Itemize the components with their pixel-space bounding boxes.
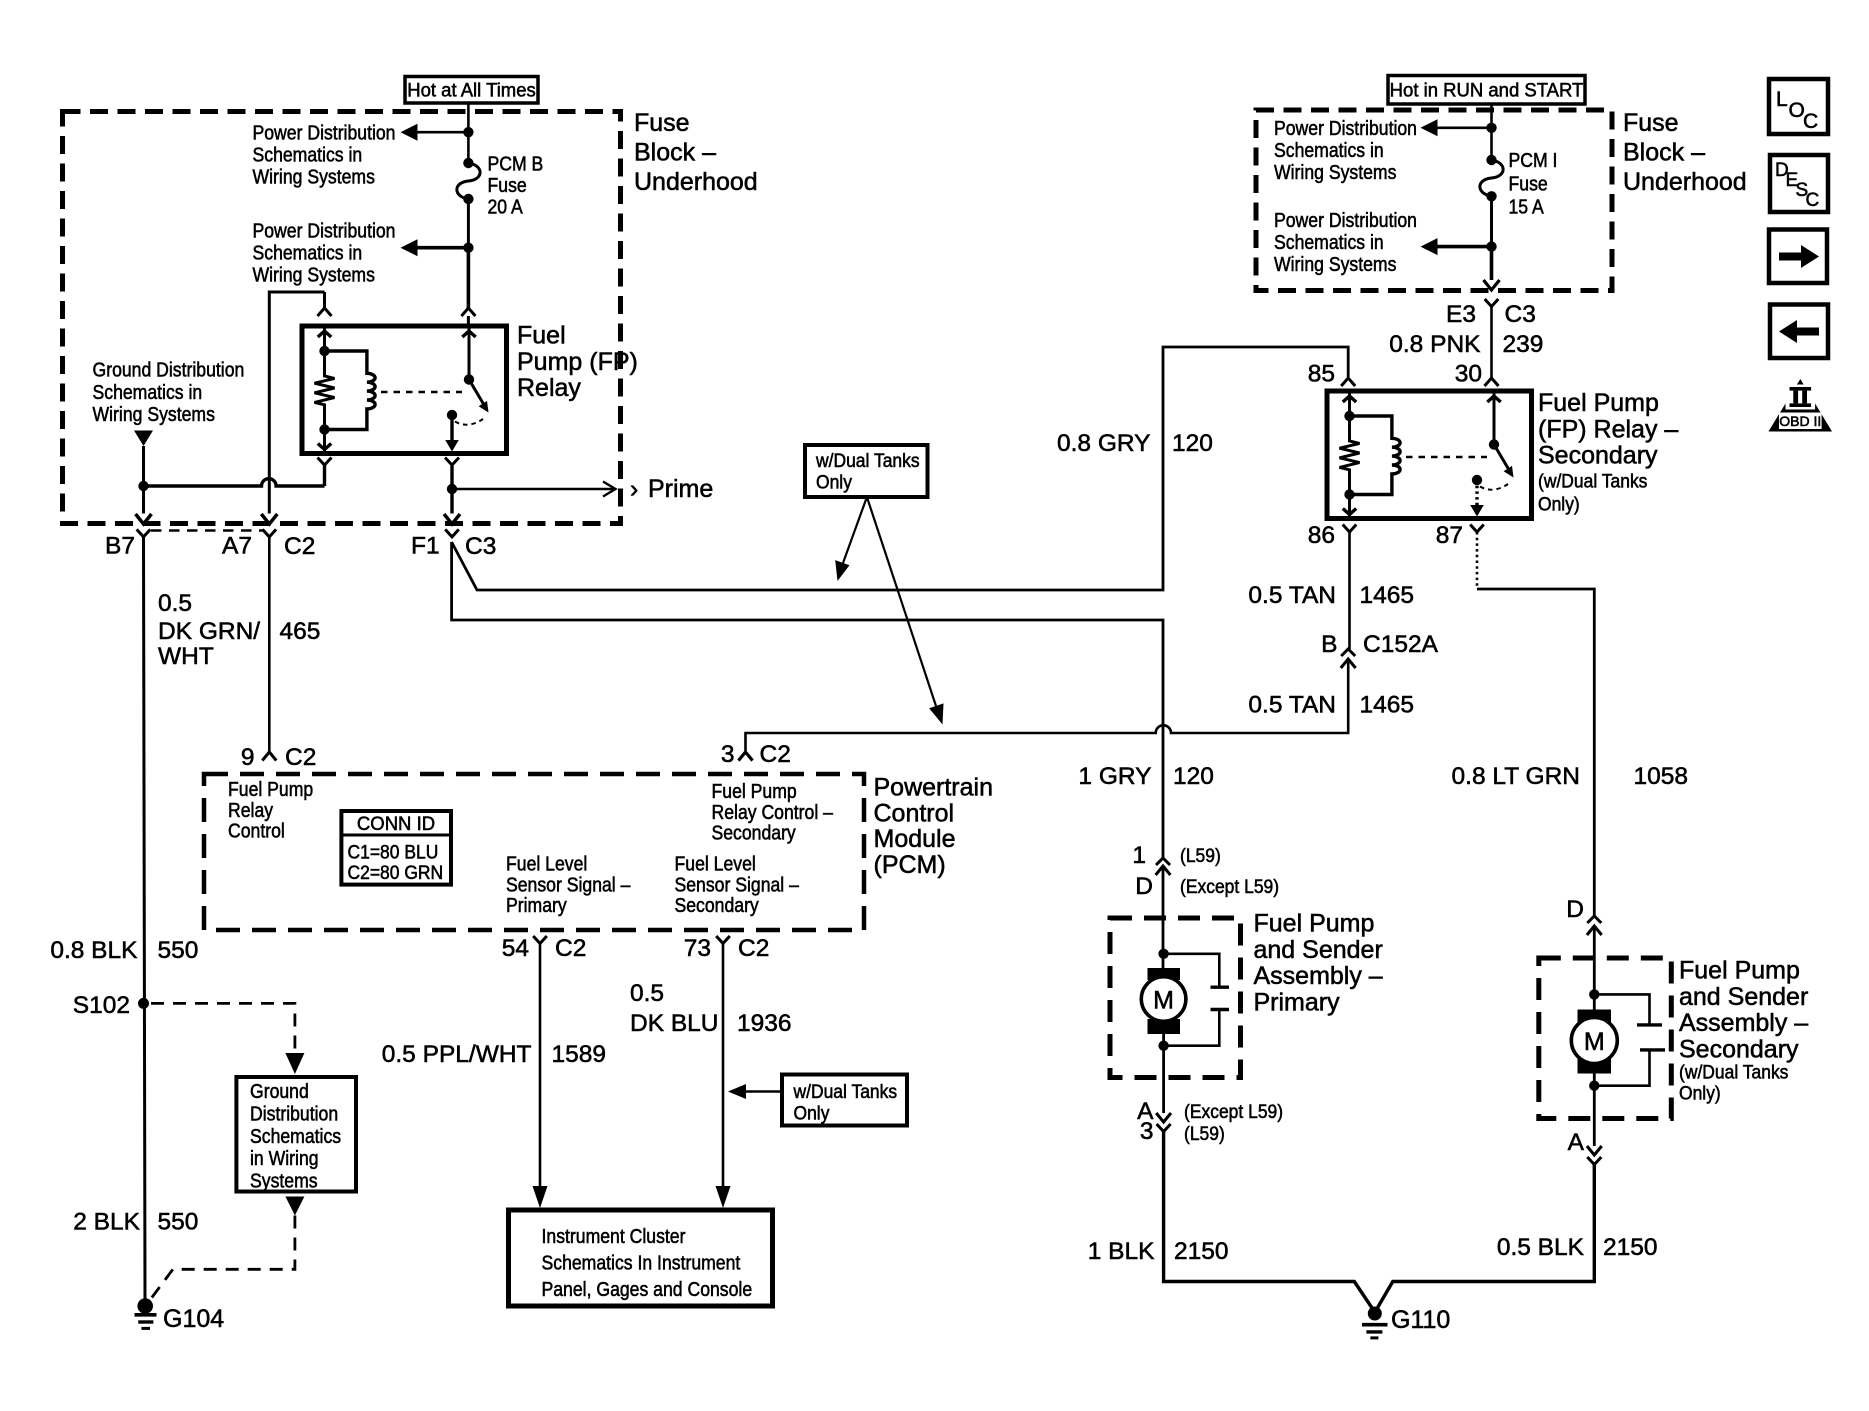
wire: relay pin 85-side down to ground-distribution rail xyxy=(318,458,332,487)
label: PCM I Fuse 15 A xyxy=(1509,150,1558,219)
svg-text:Secondary: Secondary xyxy=(675,895,760,918)
label: 0.5 DK GRN/WHT xyxy=(158,590,260,670)
wire: upper branch to power distribution (left) xyxy=(401,124,469,141)
icon: LOC button xyxy=(1769,79,1828,134)
wire: relay pin 86-side up and over to A7 column xyxy=(261,292,331,524)
svg-text:0.5 TAN: 0.5 TAN xyxy=(1248,582,1336,609)
svg-text:and Sender: and Sender xyxy=(1679,983,1808,1011)
ground distribution triangle arrow xyxy=(134,431,153,447)
svg-text:C2: C2 xyxy=(555,935,586,962)
PCM dashed box xyxy=(204,774,864,930)
svg-text:20 A: 20 A xyxy=(488,196,524,219)
svg-text:Fuel Pump: Fuel Pump xyxy=(1538,389,1659,417)
svg-text:B7: B7 xyxy=(105,533,135,560)
label: 0.5 DK BLU xyxy=(630,980,719,1037)
svg-text:3: 3 xyxy=(721,741,735,768)
connector A7 chevron xyxy=(263,529,277,537)
svg-text:DK BLU: DK BLU xyxy=(630,1010,719,1037)
svg-text:Fuel Pump: Fuel Pump xyxy=(1254,910,1375,938)
wire: pump secondary to G110 (ckt 2150) xyxy=(1376,1074,1602,1311)
labels: B7 / A7 / C2 xyxy=(105,533,315,561)
svg-text:Secondary: Secondary xyxy=(1538,442,1658,470)
svg-text:0.8 GRY: 0.8 GRY xyxy=(1057,430,1151,457)
labels: pin 3 (L59) xyxy=(1140,1118,1225,1145)
svg-text:1465: 1465 xyxy=(1360,692,1415,719)
svg-text:Panel, Gages and Console: Panel, Gages and Console xyxy=(542,1279,753,1302)
svg-text:0.5: 0.5 xyxy=(630,980,664,1007)
svg-text:1589: 1589 xyxy=(552,1041,607,1068)
svg-text:Underhood: Underhood xyxy=(634,168,758,196)
svg-text:87: 87 xyxy=(1436,522,1463,549)
svg-text:Power Distribution: Power Distribution xyxy=(1274,210,1417,233)
svg-text:(FP) Relay –: (FP) Relay – xyxy=(1538,415,1678,443)
svg-text:0.8 BLK: 0.8 BLK xyxy=(50,937,138,964)
w/Dual Tanks Only callout (lower) xyxy=(728,1075,907,1126)
wire: ckt 120 (0.8 GRY) F1 to secondary relay pin 85 xyxy=(452,347,1356,590)
svg-text:Power Distribution: Power Distribution xyxy=(253,220,396,243)
svg-text:Fuel: Fuel xyxy=(517,322,566,350)
svg-text:CONN ID: CONN ID xyxy=(357,814,435,836)
svg-text:Fuse: Fuse xyxy=(1623,109,1679,137)
svg-text:2150: 2150 xyxy=(1603,1234,1658,1261)
svg-text:Schematics in: Schematics in xyxy=(1274,140,1384,163)
label: Fuse Block - Underhood (left) xyxy=(634,109,758,196)
svg-text:465: 465 xyxy=(280,618,321,645)
label: Fuel Pump (FP) Relay xyxy=(517,322,638,403)
wire: Prime tap with open arrow xyxy=(452,482,616,497)
svg-text:0.5 BLK: 0.5 BLK xyxy=(1497,1234,1585,1261)
svg-text:WHT: WHT xyxy=(158,643,214,670)
svg-text:Only: Only xyxy=(816,471,853,493)
dashed connector tie B7-A7 xyxy=(151,529,263,532)
svg-text:1: 1 xyxy=(1132,842,1146,869)
svg-text:(PCM): (PCM) xyxy=(874,851,946,879)
label: Fuse Block - Underhood (right) xyxy=(1623,109,1747,196)
svg-text:Schematics in: Schematics in xyxy=(253,242,363,265)
wire: fused output exits fuse block (right) xyxy=(1484,247,1500,290)
label: power distribution schematics (lower right) xyxy=(1274,210,1417,277)
svg-text:›: › xyxy=(630,475,638,503)
svg-text:C2=80 GRN: C2=80 GRN xyxy=(348,861,444,883)
relay: Fuel Pump (FP) Relay - Secondary xyxy=(1327,391,1532,519)
label: Fuel Pump Relay Control xyxy=(228,779,313,843)
ground distribution schematics box (left column) xyxy=(236,1077,356,1192)
svg-text:550: 550 xyxy=(158,1209,199,1236)
svg-text:(Except L59): (Except L59) xyxy=(1184,1100,1283,1122)
svg-text:G110: G110 xyxy=(1391,1306,1450,1334)
svg-text:Block –: Block – xyxy=(1623,139,1705,167)
label box: Hot in RUN and START xyxy=(1388,76,1585,105)
svg-text:C1=80 BLU: C1=80 BLU xyxy=(348,841,439,863)
svg-text:Instrument Cluster: Instrument Cluster xyxy=(542,1226,687,1249)
svg-text:550: 550 xyxy=(158,937,199,964)
svg-text:DK GRN/: DK GRN/ xyxy=(158,618,260,645)
icon: DESC button xyxy=(1770,155,1828,212)
svg-text:and Sender: and Sender xyxy=(1254,936,1383,964)
svg-text:Schematics In Instrument: Schematics In Instrument xyxy=(542,1252,741,1275)
svg-text:(w/Dual Tanks: (w/Dual Tanks xyxy=(1679,1061,1788,1083)
connector: PCM pin 54 C2 + wire to instrument cluster xyxy=(533,936,548,1208)
svg-text:Fuse: Fuse xyxy=(634,109,690,137)
relay: Fuel Pump (FP) Relay (primary) xyxy=(302,326,507,454)
labels: pin D (Except L59) xyxy=(1135,873,1279,900)
svg-text:Schematics in: Schematics in xyxy=(253,144,363,167)
labels: E3 / C3 xyxy=(1446,301,1536,328)
connector: PCM pin 73 C2 + wire to instrument cluster xyxy=(716,936,731,1208)
fuel level sender (primary) xyxy=(1164,954,1229,1046)
svg-text:M: M xyxy=(1153,987,1174,1015)
svg-text:Fuel Level: Fuel Level xyxy=(506,853,587,876)
wire: upper branch to power distribution (right) xyxy=(1421,119,1492,136)
icon: back arrow button xyxy=(1770,305,1828,359)
label: power distribution schematics (upper left) xyxy=(253,122,396,189)
svg-text:Fuel Pump: Fuel Pump xyxy=(712,781,797,804)
svg-text:(Except L59): (Except L59) xyxy=(1180,875,1279,897)
svg-text:C2: C2 xyxy=(760,741,791,768)
wire: ground rail (hump over A7 wire) xyxy=(144,479,325,486)
svg-text:30: 30 xyxy=(1455,361,1482,388)
svg-text:0.5 TAN: 0.5 TAN xyxy=(1248,692,1336,719)
svg-text:3: 3 xyxy=(1140,1118,1154,1145)
svg-text:Sensor Signal –: Sensor Signal – xyxy=(506,874,631,897)
svg-text:Block –: Block – xyxy=(634,139,716,167)
svg-text:Schematics in: Schematics in xyxy=(1274,232,1384,255)
svg-text:Relay: Relay xyxy=(228,800,273,823)
svg-text:E3: E3 xyxy=(1446,301,1476,328)
wire: feed from Hot in RUN and START xyxy=(1490,104,1493,160)
w/Dual Tanks Only callout (upper) with arrows xyxy=(805,445,944,725)
svg-text:w/Dual Tanks: w/Dual Tanks xyxy=(815,449,920,471)
wire: ckt 1058 (0.8 LT GRN) pin 87 to fuel pump secondary xyxy=(1477,532,1602,1010)
svg-text:54: 54 xyxy=(502,935,529,962)
node: junction on B7 wire xyxy=(138,481,148,491)
label: ground distribution schematics (left) xyxy=(93,359,245,426)
fuse PCM B 20A symbol xyxy=(463,158,473,168)
svg-text:Hot at All Times: Hot at All Times xyxy=(407,80,536,102)
wire: relay output to Prime junction and F1 xyxy=(444,458,460,525)
labels: pin 1 (L59) xyxy=(1132,842,1220,869)
svg-text:B: B xyxy=(1321,631,1337,658)
svg-text:C2: C2 xyxy=(285,744,316,771)
wire: B7 drop out of fuse block xyxy=(136,446,152,524)
svg-text:Fuel Level: Fuel Level xyxy=(675,853,756,876)
svg-text:15 A: 15 A xyxy=(1509,196,1545,219)
svg-text:Wiring Systems: Wiring Systems xyxy=(1274,162,1396,185)
node: splice S102 xyxy=(138,998,149,1009)
labels: F1 / C3 xyxy=(411,533,496,561)
label: &gt; Prime xyxy=(630,475,713,503)
svg-text:Secondary: Secondary xyxy=(712,822,797,845)
fuse PCM I 15A symbol xyxy=(1486,155,1496,165)
node: lower branch junction (right) xyxy=(1486,241,1496,251)
labels: 73 / C2 xyxy=(684,935,770,962)
fuel pump motor M (primary) xyxy=(1141,949,1186,1051)
svg-text:D: D xyxy=(1135,873,1153,900)
svg-text:Schematics in: Schematics in xyxy=(93,382,203,405)
svg-text:Fuel Pump: Fuel Pump xyxy=(1679,957,1800,985)
fuel level sender (secondary) xyxy=(1594,994,1665,1085)
svg-text:C3: C3 xyxy=(1505,301,1536,328)
svg-text:86: 86 xyxy=(1308,522,1335,549)
labels: 9 / C2 at PCM pin xyxy=(241,744,316,771)
svg-text:Power Distribution: Power Distribution xyxy=(253,122,396,145)
wire: feed from Hot at All Times into fuse block xyxy=(467,103,470,163)
node: lower branch junction xyxy=(463,243,473,253)
svg-text:Secondary: Secondary xyxy=(1679,1035,1799,1063)
label: Fuel Pump and Sender Assembly - Secondary (w/Dual Tanks Only) xyxy=(1679,957,1808,1104)
label: Fuel Pump (FP) Relay - Secondary (w/Dual Tanks Only) xyxy=(1538,389,1678,515)
svg-text:Wiring Systems: Wiring Systems xyxy=(93,404,215,427)
label: ground distribution schematics in wiring systems xyxy=(250,1081,341,1193)
svg-text:Power Distribution: Power Distribution xyxy=(1274,118,1417,141)
svg-text:1465: 1465 xyxy=(1360,582,1415,609)
labels: 54 / C2 xyxy=(502,935,587,962)
fuse block underhood (left) dashed box xyxy=(63,112,621,524)
label: Fuel Pump Relay Control - Secondary xyxy=(712,781,834,845)
fuel pump and sender assembly primary dashed box xyxy=(1110,918,1241,1078)
svg-text:D: D xyxy=(1566,896,1584,923)
connector: PCM pin 3 C2 xyxy=(721,741,791,768)
labels: pin A (Except L59) xyxy=(1137,1098,1283,1125)
instrument cluster reference box xyxy=(509,1210,773,1306)
svg-text:0.8 PNK: 0.8 PNK xyxy=(1389,331,1481,358)
svg-text:Hot in RUN and START: Hot in RUN and START xyxy=(1390,80,1584,102)
svg-text:Control: Control xyxy=(874,799,955,827)
svg-text:C2: C2 xyxy=(738,935,769,962)
labels: B / C152A xyxy=(1321,631,1438,658)
svg-text:Schematics: Schematics xyxy=(250,1126,341,1149)
svg-text:9: 9 xyxy=(241,744,255,771)
svg-text:0.5 PPL/WHT: 0.5 PPL/WHT xyxy=(382,1041,532,1068)
svg-text:L: L xyxy=(1776,88,1788,111)
svg-text:(L59): (L59) xyxy=(1180,844,1221,866)
connector E3/C3 xyxy=(1485,299,1499,386)
fuse block underhood (right) dashed box xyxy=(1256,110,1612,291)
svg-text:0.8 LT GRN: 0.8 LT GRN xyxy=(1452,763,1580,790)
wire: ckt 1465 (0.5 TAN) pin 86 to PCM pin 3 xyxy=(739,532,1356,761)
svg-text:C2: C2 xyxy=(284,533,315,560)
ground G110 xyxy=(1362,1307,1388,1338)
svg-text:Relay: Relay xyxy=(517,374,581,402)
icon: forward arrow button xyxy=(1769,230,1827,284)
svg-text:S102: S102 xyxy=(73,992,130,1019)
node: upper branch junction xyxy=(463,127,473,137)
svg-text:Primary: Primary xyxy=(1254,988,1341,1016)
svg-text:Module: Module xyxy=(874,825,956,853)
svg-text:F1: F1 xyxy=(411,533,440,560)
svg-text:Fuse: Fuse xyxy=(488,175,527,198)
svg-text:C152A: C152A xyxy=(1363,631,1439,658)
dashed reference path from box to G104 xyxy=(150,1197,304,1301)
node: Prime junction xyxy=(447,484,457,494)
svg-text:85: 85 xyxy=(1308,361,1335,388)
svg-text:Only: Only xyxy=(794,1102,831,1124)
label: PCM B Fuse 20 A xyxy=(488,153,544,219)
svg-text:2150: 2150 xyxy=(1174,1238,1229,1265)
svg-text:Ground Distribution: Ground Distribution xyxy=(93,359,245,382)
CONN ID table xyxy=(341,811,451,885)
wire: ckt 120 (1 GRY) F1 to fuel pump primary xyxy=(452,542,1171,968)
dashed reference path from S102 to ground distribution box xyxy=(151,1003,304,1074)
svg-text:G104: G104 xyxy=(163,1305,224,1333)
wire: lower branch to power distribution (left) xyxy=(401,239,469,256)
svg-text:120: 120 xyxy=(1173,763,1214,790)
svg-text:73: 73 xyxy=(684,935,711,962)
fuel pump motor M (secondary) xyxy=(1571,989,1617,1091)
svg-text:C: C xyxy=(1803,110,1818,133)
svg-text:in Wiring: in Wiring xyxy=(250,1148,319,1171)
svg-text:OBD II: OBD II xyxy=(1779,413,1821,429)
svg-text:M: M xyxy=(1584,1028,1605,1056)
svg-text:Systems: Systems xyxy=(250,1170,318,1193)
connector: relay secondary pin 87 chevron xyxy=(1470,525,1484,533)
svg-text:Only): Only) xyxy=(1679,1082,1721,1104)
wire: A7/C2 to PCM pin 9 (ckt 465) xyxy=(262,537,276,761)
wire: fuse to lower branch xyxy=(467,199,470,248)
svg-text:Primary: Primary xyxy=(506,895,567,918)
svg-text:1058: 1058 xyxy=(1634,763,1689,790)
svg-text:w/Dual Tanks: w/Dual Tanks xyxy=(793,1080,898,1102)
svg-text:0.5: 0.5 xyxy=(158,590,192,617)
connector F1 chevron with diagonal xyxy=(445,529,459,537)
svg-text:Assembly –: Assembly – xyxy=(1254,962,1383,990)
svg-text:Wiring Systems: Wiring Systems xyxy=(253,166,375,189)
svg-text:(w/Dual Tanks: (w/Dual Tanks xyxy=(1538,470,1647,492)
wire: lower branch to power distribution (right) xyxy=(1421,238,1492,255)
svg-text:Wiring Systems: Wiring Systems xyxy=(1274,254,1396,277)
label: Fuel Level Sensor Signal - Primary xyxy=(506,853,631,917)
svg-text:PCM I: PCM I xyxy=(1509,150,1558,173)
svg-text:PCM B: PCM B xyxy=(488,153,544,176)
svg-text:2 BLK: 2 BLK xyxy=(73,1209,140,1236)
svg-text:Wiring Systems: Wiring Systems xyxy=(253,264,375,287)
wire: pump primary to G110 (ckt 2150) xyxy=(1156,1034,1373,1310)
svg-text:120: 120 xyxy=(1172,430,1213,457)
ground G104 xyxy=(135,1298,157,1328)
node: upper branch junction (right) xyxy=(1486,123,1496,133)
svg-text:Fuse: Fuse xyxy=(1509,173,1548,196)
connector: relay secondary pin 86 chevron xyxy=(1343,525,1357,533)
label: power distribution schematics (lower left) xyxy=(253,220,396,287)
svg-text:1 GRY: 1 GRY xyxy=(1078,763,1151,790)
svg-text:Distribution: Distribution xyxy=(250,1103,338,1126)
svg-text:A: A xyxy=(1568,1129,1585,1156)
svg-text:239: 239 xyxy=(1503,331,1544,358)
label: Powertrain Control Module (PCM) xyxy=(874,774,994,879)
icon: OBD II triangle xyxy=(1769,379,1833,432)
label: Fuel Level Sensor Signal - Secondary xyxy=(675,853,800,917)
svg-text:(L59): (L59) xyxy=(1184,1122,1225,1144)
svg-text:C3: C3 xyxy=(465,533,496,560)
wire: fuse to lower branch (right) xyxy=(1490,196,1493,246)
svg-text:Underhood: Underhood xyxy=(1623,168,1747,196)
wire: B7 ground wire down to G104 xyxy=(144,537,146,1300)
label box: Hot at All Times xyxy=(405,77,538,104)
label: instrument cluster schematics xyxy=(542,1226,753,1301)
svg-text:Pump (FP): Pump (FP) xyxy=(517,348,638,376)
svg-text:Fuel Pump: Fuel Pump xyxy=(228,779,313,802)
fuel pump and sender assembly secondary dashed box xyxy=(1539,958,1672,1119)
label: Fuel Pump and Sender Assembly - Primary xyxy=(1254,910,1383,1017)
connector B7 chevron xyxy=(137,529,151,537)
svg-text:A7: A7 xyxy=(222,533,252,560)
svg-text:1936: 1936 xyxy=(737,1010,792,1037)
svg-text:1 BLK: 1 BLK xyxy=(1088,1238,1155,1265)
svg-text:C: C xyxy=(1806,190,1820,211)
svg-text:Prime: Prime xyxy=(648,475,713,503)
wire: fused feed down to relay pin (with connector chevron) xyxy=(461,248,475,328)
svg-text:Control: Control xyxy=(228,820,285,843)
svg-text:Powertrain: Powertrain xyxy=(874,774,994,802)
label: power distribution schematics (upper right) xyxy=(1274,118,1417,185)
svg-text:Relay Control –: Relay Control – xyxy=(712,802,834,825)
svg-text:Ground: Ground xyxy=(250,1081,309,1104)
svg-text:Sensor Signal –: Sensor Signal – xyxy=(675,874,800,897)
svg-text:Assembly –: Assembly – xyxy=(1679,1009,1808,1037)
svg-text:Only): Only) xyxy=(1538,493,1580,515)
